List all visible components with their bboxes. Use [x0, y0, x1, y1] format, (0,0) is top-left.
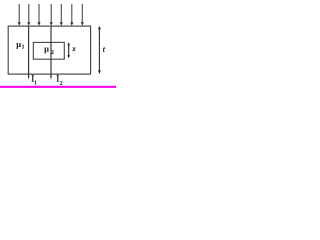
label mu2	[44, 43, 54, 56]
dimension arrow t	[98, 26, 101, 74]
field arrow 7	[81, 4, 84, 26]
dimension arrow x	[67, 42, 70, 58]
conductor I2 wire	[50, 26, 52, 80]
field arrow 5	[60, 4, 63, 26]
svg-text:2: 2	[51, 49, 54, 56]
field arrow 4	[50, 4, 53, 26]
field arrow 6	[70, 4, 73, 26]
svg-text:μ: μ	[44, 43, 49, 53]
svg-text:1: 1	[22, 45, 25, 51]
magenta baseline	[0, 86, 116, 88]
field arrow 3	[37, 4, 40, 26]
svg-text:1: 1	[34, 80, 37, 86]
svg-text:x: x	[71, 45, 76, 53]
label mu1	[16, 39, 24, 51]
label I1	[31, 74, 37, 87]
conductor I1 wire	[28, 26, 30, 80]
outer box region mu1	[8, 26, 90, 74]
field arrow 2	[27, 4, 30, 26]
field arrow 1	[18, 4, 21, 26]
svg-text:t: t	[103, 45, 106, 54]
label I2	[56, 74, 63, 87]
inner box region mu2	[33, 42, 64, 59]
svg-text:μ: μ	[16, 39, 21, 49]
